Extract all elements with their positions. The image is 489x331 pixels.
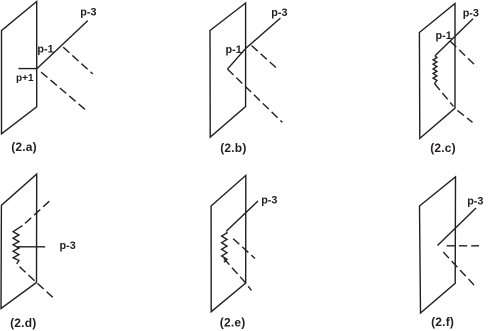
svg-text:(2.b): (2.b) [220,141,246,155]
svg-text:p-1: p-1 [226,44,242,56]
svg-text:p-3: p-3 [463,7,479,19]
svg-text:p-3: p-3 [467,196,483,208]
svg-text:(2.e): (2.e) [220,316,246,330]
svg-text:p-3: p-3 [60,240,76,252]
svg-text:(2.f): (2.f) [431,315,454,329]
svg-text:p+1: p+1 [16,73,34,84]
svg-text:p-3: p-3 [261,195,277,207]
svg-text:p-1: p-1 [37,43,53,55]
svg-text:(2.c): (2.c) [430,141,456,155]
svg-text:p-3: p-3 [271,7,287,19]
svg-text:p-1: p-1 [436,30,452,42]
svg-text:(2.d): (2.d) [10,316,36,330]
svg-text:p-3: p-3 [80,7,96,19]
svg-text:(2.a): (2.a) [11,140,37,154]
